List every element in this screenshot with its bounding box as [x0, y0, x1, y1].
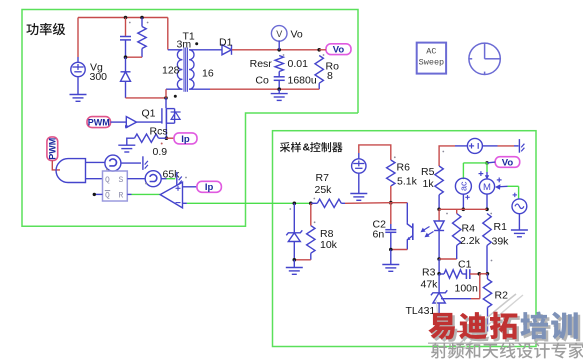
diode snubber clamp — [121, 71, 131, 73]
svg-text:R4: R4 — [462, 223, 476, 235]
watermark underline — [428, 342, 583, 344]
watermark brand line1 shadow — [431, 315, 458, 342]
wire c2 gnd stem — [390, 250, 392, 265]
svg-text:Ip: Ip — [205, 182, 214, 193]
wire FF R green — [127, 193, 131, 195]
arrow into M — [497, 185, 508, 188]
wire to Vo port — [319, 49, 326, 51]
pin mark res — [147, 22, 149, 24]
capacitor snubber — [120, 36, 131, 38]
wire primary bottom — [166, 88, 182, 90]
plus mark 2 — [497, 179, 502, 181]
wire gate in top — [86, 161, 105, 163]
diode TL431 — [431, 290, 447, 295]
watermark brand line1 — [428, 313, 455, 340]
pin mark r6 — [394, 156, 396, 158]
wire resr-co — [278, 72, 280, 77]
pin mark rcs — [161, 143, 163, 145]
watermark swoosh — [448, 294, 516, 357]
plus mark 1 — [479, 173, 484, 175]
wire emitter to C2 node — [391, 249, 408, 251]
ground zener — [286, 267, 303, 269]
pin mark ro — [323, 54, 325, 56]
wire r5 bottom — [438, 195, 440, 210]
capacitor C2 — [385, 229, 396, 231]
port PWM drive — [87, 117, 111, 128]
node snubber-res top — [140, 16, 144, 20]
ground Vg — [70, 94, 87, 96]
buffer U-drv — [126, 117, 136, 128]
wire Vg top — [77, 57, 79, 62]
svg-text:16: 16 — [202, 68, 214, 80]
wire clamp to drain rail — [126, 97, 167, 99]
svg-text:Sweep: Sweep — [419, 58, 445, 68]
wire rail to opto — [391, 202, 408, 204]
svg-text:10k: 10k — [320, 239, 338, 251]
wire cmp plus to Ip — [183, 186, 197, 188]
source clock pulse — [105, 155, 121, 171]
ground output — [271, 93, 288, 95]
svg-text:D1: D1 — [219, 37, 233, 49]
wire cap to node — [125, 40, 127, 57]
wire vo green left — [463, 162, 487, 164]
wire rcs left lead — [127, 138, 135, 145]
wire top rail — [78, 17, 168, 19]
pin bubble ramp — [176, 172, 178, 186]
pin mark cmp — [185, 177, 187, 179]
svg-text:PWM: PWM — [88, 118, 110, 128]
wire ro bottom — [318, 83, 320, 89]
resistor Rcs — [135, 134, 159, 142]
comparator U-cmp — [160, 182, 182, 208]
wire bias bottom — [358, 174, 360, 193]
node zener gnd — [293, 258, 297, 262]
wire diode down — [125, 81, 127, 98]
wire buffer-gate — [137, 121, 162, 123]
node R3 left — [437, 272, 441, 276]
transformer T1 secondary winding — [189, 50, 194, 60]
node voltmeter tap — [277, 48, 281, 52]
wire Q1 drain — [165, 98, 167, 108]
node drain rail — [164, 96, 168, 100]
wire cmp minus green long — [187, 202, 311, 204]
resistor R1 — [483, 214, 491, 246]
node Vo tap — [485, 161, 489, 165]
svg-text:M: M — [483, 182, 491, 193]
wire co to rail — [278, 80, 280, 89]
wire led-R4 link — [439, 258, 457, 260]
node output gnd tap — [277, 87, 281, 91]
diode opto LED — [434, 221, 444, 231]
pin bubble clock — [142, 156, 144, 170]
source Vg — [71, 62, 85, 76]
node Qbar open — [93, 193, 96, 196]
wire zener bottom — [293, 242, 295, 260]
resistor Resr — [275, 56, 283, 72]
svg-text:Resr: Resr — [250, 58, 273, 70]
svg-text:PWM: PWM — [48, 138, 58, 160]
wire ramp right — [161, 178, 166, 180]
source sine — [512, 199, 527, 214]
svg-text:R1: R1 — [494, 221, 508, 233]
wire cap drop — [125, 18, 127, 37]
svg-text:300: 300 — [90, 71, 108, 83]
wire node-diode — [125, 57, 127, 72]
diode D1 — [222, 45, 232, 55]
wire clock right — [121, 162, 141, 164]
label controller (采样&控制器) — [280, 142, 343, 154]
svg-text:Ip: Ip — [181, 134, 190, 145]
pin mark resr — [283, 54, 285, 56]
port PWM vertical — [47, 137, 58, 161]
wire r8 bottom — [310, 253, 312, 260]
arrow light 1 — [422, 227, 430, 232]
svg-text:Q: Q — [105, 176, 110, 185]
resistor R7 — [317, 199, 341, 207]
resistor R3 — [444, 270, 462, 278]
node R6 rail — [389, 201, 393, 205]
power stage boundary box — [22, 10, 358, 227]
svg-text:Q: Q — [105, 192, 110, 201]
resistor R6 — [387, 160, 395, 186]
svg-text:R: R — [119, 192, 124, 201]
wire r4 bottom — [456, 246, 458, 260]
wire zgnd stem — [293, 260, 295, 267]
wire TL431 ref — [441, 298, 471, 300]
transistor Q1 mosfet — [161, 108, 163, 123]
wire r1 bottom — [486, 246, 488, 274]
wire voff right — [482, 145, 497, 147]
svg-text:R7: R7 — [316, 172, 330, 184]
controller boundary box — [273, 131, 537, 347]
wire arrow green — [508, 185, 519, 187]
node Rcs-Ip — [165, 136, 169, 140]
svg-text:5.1k: 5.1k — [397, 176, 418, 188]
ground C2 — [382, 264, 399, 266]
resistor Ro — [315, 56, 323, 84]
svg-text:3m: 3m — [177, 39, 192, 51]
node LED rail a — [437, 208, 441, 212]
wire tl431 bottom — [438, 303, 440, 332]
plus mark ac — [465, 196, 469, 198]
voltmeter V — [271, 26, 287, 42]
port Ip compare — [197, 181, 222, 192]
wire LED rail — [439, 208, 487, 210]
wire voff left lead — [455, 145, 467, 147]
plus mark sine — [513, 194, 517, 196]
port Vo controller — [495, 157, 520, 168]
resistor snubber — [138, 27, 146, 49]
pin mark ramp — [145, 183, 147, 185]
node LED rail c — [485, 208, 489, 212]
wire R5 top corner — [439, 146, 455, 166]
wire r7 to r6node — [345, 202, 391, 205]
wire FF S lead — [127, 178, 145, 180]
node snubber-cap top — [124, 16, 128, 20]
resistor R4 — [453, 214, 461, 246]
svg-text:Q1: Q1 — [142, 108, 156, 120]
gate AND mirrored — [56, 159, 85, 183]
source offset Voff — [467, 138, 482, 153]
flip-flop SR — [103, 171, 128, 201]
wire R6 bottom — [390, 186, 392, 203]
wire pwm-buffer — [111, 121, 127, 123]
transistor opto-BJT — [412, 223, 414, 240]
source ramp 65k — [145, 171, 161, 187]
svg-text:Vo: Vo — [333, 45, 345, 56]
pin mark r2 — [491, 260, 493, 262]
wire r4 top — [456, 209, 458, 213]
wire Vg bottom — [77, 77, 79, 94]
wire c2 bottom — [390, 232, 392, 249]
svg-text:1680u: 1680u — [288, 75, 317, 87]
svg-text:R3: R3 — [422, 267, 436, 279]
diode zener ref — [286, 230, 302, 235]
wire res-cap link — [126, 56, 143, 58]
node led-R4 — [437, 257, 441, 261]
wire bottom link rail — [439, 331, 487, 333]
icon AC Sweep box — [417, 43, 446, 74]
wire r2 bottom — [487, 308, 489, 332]
wire to primary top — [168, 49, 183, 51]
resistor R8 — [307, 226, 315, 254]
svg-text:2.2k: 2.2k — [460, 235, 481, 247]
wire Q1 source — [165, 123, 167, 138]
wire FF Qbar stub — [94, 193, 102, 195]
wire tl431 top — [438, 274, 440, 293]
wire pwm port to gate — [52, 161, 60, 170]
node zener top — [293, 202, 297, 206]
capacitor C1 — [465, 269, 467, 279]
node LED rail b — [462, 208, 466, 212]
port Ip sense — [174, 133, 197, 144]
wire D1 to output rail — [232, 49, 319, 51]
pin mark r5 — [442, 151, 444, 153]
wire rail corner — [167, 18, 169, 50]
wire opto collector — [406, 203, 408, 223]
wire bias top — [358, 153, 360, 158]
wire res leads — [141, 18, 143, 27]
wire M top — [486, 163, 488, 172]
svg-text:Vo: Vo — [291, 29, 303, 41]
svg-text:0.01: 0.01 — [288, 58, 309, 70]
wire voltmeter stem — [278, 40, 280, 49]
port Vo output — [326, 44, 351, 55]
wire gnd stem out — [278, 89, 280, 93]
wire led bottom — [438, 231, 440, 259]
node C2 gnd — [389, 248, 393, 252]
wire secondary top — [189, 49, 222, 51]
pin bubble voff — [518, 139, 520, 153]
transformer core — [183, 48, 185, 92]
icon clock — [469, 43, 500, 74]
wire led down — [438, 259, 440, 274]
svg-text:Rcs: Rcs — [150, 126, 168, 138]
svg-text:AC: AC — [426, 47, 436, 57]
svg-text:V: V — [276, 29, 282, 39]
ground sine — [511, 229, 528, 231]
resistor R2 — [483, 279, 491, 308]
pin mark r8 — [314, 221, 316, 223]
wire to Ip port — [166, 137, 174, 139]
pin mark r7 — [313, 198, 315, 200]
svg-text:128: 128 — [162, 65, 180, 77]
node Ro top — [317, 48, 321, 52]
phase dot primary — [174, 95, 177, 98]
svg-text:&: & — [303, 143, 311, 154]
wire ac stem — [462, 194, 464, 209]
wire green down ac — [462, 163, 464, 179]
svg-text:1k: 1k — [423, 178, 435, 190]
svg-text:6n: 6n — [373, 229, 385, 241]
arrow light 2 — [426, 232, 434, 237]
pin mark cap — [129, 22, 131, 24]
pin mark zen — [289, 208, 291, 210]
svg-text:39k: 39k — [492, 236, 510, 248]
svg-text:C1: C1 — [458, 259, 472, 271]
pin mark clk — [106, 169, 108, 171]
wire zener top lead — [293, 203, 295, 233]
resistor R5 — [435, 166, 443, 195]
svg-text:R2: R2 — [495, 290, 509, 302]
svg-text:ac: ac — [459, 181, 469, 191]
label power-stage (功率级) — [26, 23, 65, 35]
svg-text:25k: 25k — [315, 184, 333, 196]
pin mark r4 — [446, 213, 448, 215]
svg-text:0.9: 0.9 — [153, 146, 168, 158]
wire cmp minus — [183, 202, 187, 204]
wire r3 left stub — [439, 273, 444, 275]
pin mark r1 — [490, 213, 492, 215]
wire r8 top red — [310, 203, 312, 225]
wire output bottom rail — [189, 88, 210, 90]
source bias ctrl — [352, 159, 366, 173]
probe ac — [455, 178, 471, 194]
ground bias — [350, 193, 367, 195]
wire M stem — [486, 194, 488, 210]
wire r2 top — [486, 273, 489, 275]
svg-text:TL431: TL431 — [406, 305, 436, 317]
capacitor Co — [274, 76, 285, 78]
svg-text:R5: R5 — [421, 166, 435, 178]
node snubber bottom — [124, 55, 128, 59]
wire opto emitter — [406, 242, 408, 250]
svg-text:100n: 100n — [455, 283, 479, 295]
wire vo port link — [487, 161, 495, 164]
wire led top — [438, 209, 440, 221]
node R8 top — [309, 202, 313, 206]
probe M meter — [479, 179, 494, 194]
watermark brand line2 — [431, 342, 583, 358]
svg-text:8: 8 — [327, 70, 333, 82]
wire sine gnd stem — [518, 214, 520, 230]
phase dot secondary — [195, 42, 198, 45]
svg-text:S: S — [119, 176, 124, 185]
wire gate in bottom — [86, 178, 103, 180]
wire r7 leads — [311, 202, 318, 204]
svg-text:47k: 47k — [421, 279, 439, 291]
svg-text:R6: R6 — [397, 162, 411, 174]
node R2 top — [486, 272, 490, 276]
wire c1 node to r1 — [479, 273, 487, 275]
svg-text:Co: Co — [255, 75, 269, 87]
ground Rcs — [118, 144, 135, 146]
wire r8-zener link — [294, 259, 311, 261]
svg-text:Vo: Vo — [502, 157, 514, 168]
node C1-R1 — [478, 272, 482, 276]
transformer T1 primary winding — [177, 50, 182, 60]
wire c2 top — [390, 203, 392, 224]
wire rcs right lead — [159, 137, 167, 139]
